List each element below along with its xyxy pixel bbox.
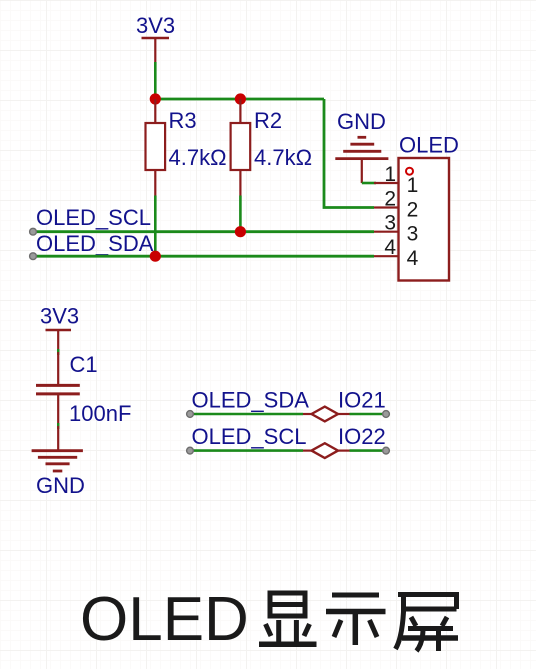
wire R3 bottom to SDA bbox=[154, 196, 157, 257]
svg-text:2: 2 bbox=[407, 198, 419, 221]
junction SCL / R2 bbox=[235, 226, 246, 237]
svg-text:3V3: 3V3 bbox=[40, 304, 79, 329]
wire OLED_SCL bbox=[33, 230, 374, 233]
svg-text:100nF: 100nF bbox=[69, 401, 131, 426]
node endpoint right (IO21) bbox=[383, 411, 390, 418]
svg-text:3: 3 bbox=[407, 223, 419, 246]
net label IO22 bbox=[338, 424, 386, 449]
wire top bus bbox=[155, 98, 324, 101]
pin 1 bbox=[374, 163, 418, 197]
junction SDA / R3 bbox=[150, 251, 161, 262]
node endpoint left (SCL row) bbox=[187, 447, 194, 454]
ground GND (at C1) bbox=[32, 426, 85, 498]
svg-text:OLED_SDA: OLED_SDA bbox=[192, 388, 310, 413]
junction at R3 top bbox=[150, 93, 161, 104]
pin 4 bbox=[374, 236, 419, 270]
node endpoint right (IO22) bbox=[383, 447, 390, 454]
net label IO21 bbox=[338, 388, 386, 413]
node endpoint left (SDA row) bbox=[187, 411, 194, 418]
pin 3 bbox=[374, 212, 418, 246]
wire R2 bottom to SCL bbox=[239, 196, 242, 232]
svg-text:OLED_SDA: OLED_SDA bbox=[36, 231, 154, 256]
svg-text:OLED: OLED bbox=[80, 585, 249, 654]
svg-text:4.7kΩ: 4.7kΩ bbox=[169, 145, 227, 170]
wire OLED_SDA tie row bbox=[190, 413, 386, 416]
net tie diamond SDA/IO21 bbox=[312, 407, 339, 422]
svg-text:1: 1 bbox=[407, 174, 419, 197]
wire OLED_SDA bbox=[33, 255, 374, 258]
junction at R2 top bbox=[235, 93, 246, 104]
node OLED_SCL endpoint bbox=[30, 228, 37, 235]
pin 2 bbox=[374, 188, 418, 222]
title glyph 显 bbox=[259, 593, 317, 644]
wire right drop to pin 2 bbox=[324, 99, 374, 208]
capacitor C1 bbox=[36, 352, 131, 426]
svg-text:IO21: IO21 bbox=[338, 388, 386, 413]
power flag 3V3 (top) bbox=[136, 13, 175, 62]
net label OLED_SCL bbox=[36, 205, 151, 230]
title glyph 示 bbox=[326, 595, 386, 645]
title glyph 屏 bbox=[396, 595, 460, 652]
wire OLED_SCL tie row bbox=[190, 449, 386, 452]
ground GND (near connector) bbox=[335, 109, 388, 183]
svg-text:C1: C1 bbox=[70, 352, 98, 377]
wire C1 to GND bbox=[57, 423, 59, 429]
svg-text:3: 3 bbox=[384, 212, 396, 235]
resistor R3 bbox=[146, 99, 227, 196]
net tie diamond SCL/IO22 bbox=[312, 443, 339, 458]
svg-text:4.7kΩ: 4.7kΩ bbox=[254, 145, 312, 170]
title text OLED bbox=[80, 585, 249, 654]
wire GND to pin 1 bbox=[362, 182, 376, 185]
wire 3V3 to C1 bbox=[57, 349, 59, 355]
svg-text:OLED_SCL: OLED_SCL bbox=[36, 205, 151, 230]
svg-text:4: 4 bbox=[384, 236, 396, 259]
svg-text:GND: GND bbox=[36, 473, 85, 498]
svg-text:1: 1 bbox=[384, 163, 396, 186]
power flag 3V3 (at C1) bbox=[40, 304, 79, 353]
svg-text:4: 4 bbox=[407, 247, 419, 270]
resistor R2 bbox=[231, 99, 312, 196]
node OLED_SDA endpoint bbox=[30, 253, 37, 260]
svg-text:OLED_SCL: OLED_SCL bbox=[192, 424, 307, 449]
net label OLED_SDA (tie row) bbox=[192, 388, 310, 413]
net label OLED_SCL (tie row) bbox=[192, 424, 307, 449]
net label OLED_SDA bbox=[36, 231, 154, 256]
svg-text:3V3: 3V3 bbox=[136, 13, 175, 38]
wire 3V3 stem bbox=[154, 62, 157, 99]
svg-text:2: 2 bbox=[384, 188, 396, 211]
connector OLED bbox=[399, 133, 459, 281]
svg-text:IO22: IO22 bbox=[338, 424, 386, 449]
svg-text:R2: R2 bbox=[254, 108, 282, 133]
svg-text:GND: GND bbox=[337, 109, 386, 134]
svg-text:OLED: OLED bbox=[399, 133, 459, 158]
svg-text:R3: R3 bbox=[169, 108, 197, 133]
